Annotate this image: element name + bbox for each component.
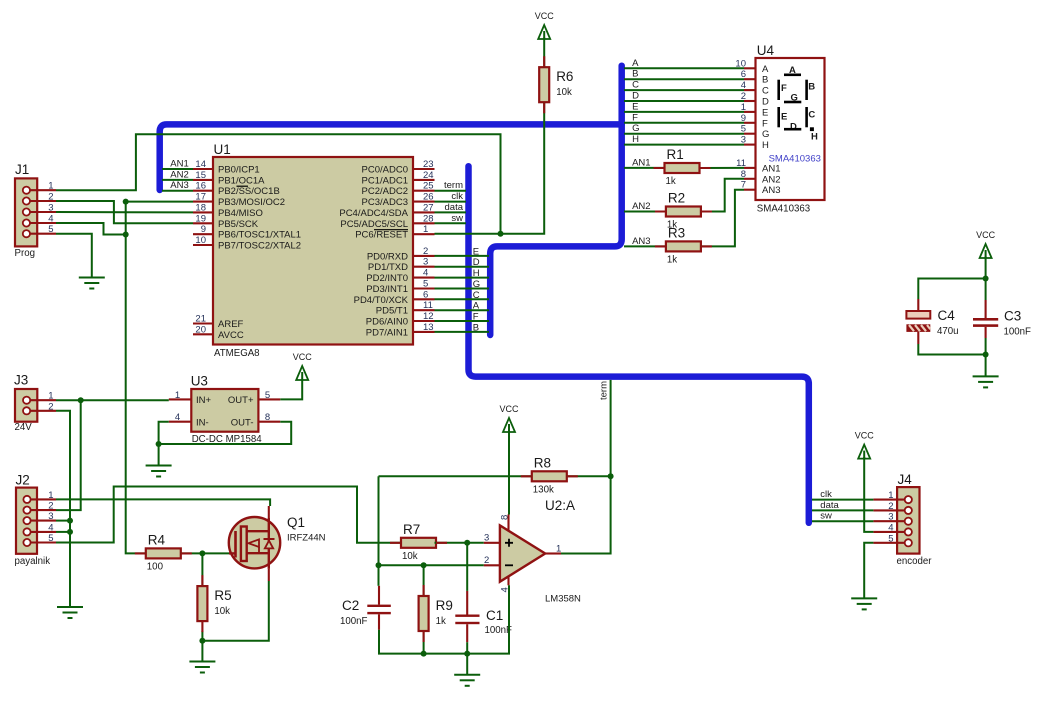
node MOSI lower junction: [123, 232, 129, 238]
R4 lead stubs: [135, 552, 192, 554]
wire C4 to ground node: [918, 344, 985, 355]
Q1 source stub: [268, 569, 270, 581]
svg-text:A: A: [473, 301, 480, 312]
svg-text:VCC: VCC: [293, 352, 313, 362]
U1 pin 14 PB0/ICP1: [193, 159, 260, 176]
wire clk U1 to bus: [435, 201, 467, 203]
svg-text:D: D: [473, 257, 480, 268]
svg-text:5: 5: [423, 279, 428, 290]
svg-text:1: 1: [48, 181, 53, 192]
ground J2/J3: [57, 607, 83, 618]
svg-text:3: 3: [484, 533, 489, 544]
U1 pin 1 PC6/RESET: [355, 224, 434, 241]
wire R8 right: [567, 475, 611, 477]
R3 lead stubs: [655, 245, 712, 247]
svg-text:1: 1: [48, 391, 53, 402]
power VCC above R6: [535, 11, 555, 39]
svg-text:PD5/T1: PD5/T1: [376, 306, 408, 317]
wire U3 OUT+ to VCC: [280, 379, 302, 399]
node C3 C4 ground junction: [983, 352, 989, 358]
svg-text:C: C: [762, 86, 769, 97]
svg-text:100nF: 100nF: [485, 625, 513, 636]
svg-text:sw: sw: [451, 213, 463, 224]
svg-text:Q1: Q1: [287, 515, 305, 530]
svg-text:R2: R2: [668, 191, 685, 206]
svg-text:PD6/AIN0: PD6/AIN0: [366, 317, 408, 328]
svg-text:19: 19: [195, 213, 206, 224]
svg-text:1k: 1k: [436, 616, 446, 627]
wire F bus to U4: [624, 122, 744, 124]
svg-text:J4: J4: [898, 472, 913, 487]
svg-text:5: 5: [48, 224, 53, 235]
wire AN2 bus to R2: [624, 211, 666, 213]
wire J1.5 to ground: [56, 234, 92, 277]
svg-text:R5: R5: [214, 588, 231, 603]
wire 24V to J2.2: [56, 400, 81, 510]
svg-text:AN3: AN3: [632, 236, 650, 247]
J1 pin 3: [23, 203, 56, 216]
wire VCC down to C3: [985, 257, 987, 301]
connector J3 24V body: [14, 373, 37, 434]
svg-text:130k: 130k: [533, 484, 554, 495]
wire R4 to Q1 gate: [181, 552, 229, 554]
svg-text:PB7/TOSC2/XTAL2: PB7/TOSC2/XTAL2: [218, 241, 301, 252]
capacitor C1 100nF: [455, 591, 512, 642]
U1 pin 25 PC2/ADC2: [362, 181, 435, 198]
svg-text:R1: R1: [667, 147, 684, 162]
svg-text:2: 2: [888, 501, 893, 512]
svg-text:4: 4: [423, 268, 428, 279]
wire A bus to U4: [624, 67, 744, 69]
node U3 ground junction: [156, 441, 162, 447]
svg-text:PB2/SS/OC1B: PB2/SS/OC1B: [218, 186, 280, 197]
svg-text:18: 18: [195, 202, 206, 213]
wire C3 to ground: [985, 338, 987, 376]
J1 pin 1: [23, 181, 56, 194]
svg-text:encoder: encoder: [897, 556, 933, 567]
svg-text:9: 9: [201, 224, 206, 235]
svg-text:PD0/RXD: PD0/RXD: [367, 251, 408, 262]
svg-text:VCC: VCC: [499, 404, 519, 414]
wire sw U1 to bus: [435, 222, 467, 224]
ground C3/C4: [973, 376, 999, 387]
svg-text:term: term: [444, 180, 463, 191]
J2 pin 4: [23, 522, 56, 535]
svg-text:clk: clk: [451, 191, 463, 202]
wire J3.2 to ground rail: [56, 411, 70, 607]
svg-text:OUT-: OUT-: [231, 418, 254, 429]
svg-text:IN-: IN-: [196, 418, 209, 429]
U1 pin 12 PD6/AIN0: [366, 311, 435, 328]
svg-text:3: 3: [423, 257, 428, 268]
wire R2 to U4 AN2: [701, 179, 744, 212]
svg-text:5: 5: [265, 390, 270, 401]
J3 pin 1: [23, 391, 56, 404]
svg-text:24V: 24V: [15, 422, 33, 433]
U4 pin 8 AN2: [741, 169, 781, 186]
svg-text:PB5/SCK: PB5/SCK: [218, 219, 259, 230]
svg-text:J2: J2: [16, 473, 30, 488]
svg-text:AN3: AN3: [170, 180, 188, 191]
svg-text:10k: 10k: [556, 87, 572, 98]
resistor R2 1k: [666, 191, 701, 231]
svg-text:F: F: [473, 312, 479, 323]
svg-text:D: D: [762, 97, 769, 108]
wire minus node to C2: [378, 565, 380, 586]
wire A U1 PD to bus: [435, 309, 490, 311]
svg-text:B: B: [808, 82, 815, 93]
wire R8 left row: [379, 475, 532, 477]
wire AN2 bus to U1: [162, 179, 193, 181]
J4 pin 1: [873, 490, 912, 503]
wire MOSI node down to R4: [126, 235, 146, 554]
U1 pin 10 PB7/TOSC2/XTAL2: [193, 235, 301, 252]
svg-text:F: F: [632, 112, 638, 123]
U3 pin 1: [169, 390, 192, 401]
wire gate node to R5: [201, 553, 203, 586]
svg-text:H: H: [762, 140, 769, 151]
svg-text:sw: sw: [820, 511, 832, 522]
svg-text:J1: J1: [15, 162, 29, 177]
U3 pin 5: [258, 390, 280, 401]
U1 pin 28 PC5/ADC5/SCL: [340, 213, 434, 230]
U1 pin 15 PB1/OC1A: [193, 170, 265, 187]
wire data U1 to bus: [435, 211, 467, 213]
svg-text:U1: U1: [214, 142, 231, 157]
J4 pin 3: [873, 512, 912, 525]
svg-text:100: 100: [147, 561, 164, 572]
svg-text:AN2: AN2: [762, 174, 780, 185]
svg-text:PD1/TXD: PD1/TXD: [368, 262, 408, 273]
U1 pin 20 AVCC: [193, 324, 244, 341]
node plus input junction: [464, 540, 470, 546]
wire J1.2 to PB5/SCK: [56, 201, 193, 223]
svg-text:H: H: [632, 134, 639, 145]
svg-text:14: 14: [195, 159, 206, 170]
svg-text:VCC: VCC: [976, 230, 996, 240]
J3 pin 2: [23, 401, 56, 414]
U4 pin 7 AN3: [741, 180, 781, 197]
svg-text:100nF: 100nF: [1004, 327, 1032, 338]
svg-text:PB3/MOSI/OC2: PB3/MOSI/OC2: [218, 197, 285, 208]
wire term bus to op-amp output: [561, 380, 611, 554]
svg-text:PB0/ICP1: PB0/ICP1: [218, 165, 260, 176]
wire R8 left down to minus node: [378, 476, 380, 565]
svg-text:4: 4: [48, 214, 53, 225]
svg-text:IRFZ44N: IRFZ44N: [287, 533, 326, 544]
svg-text:PC0/ADC0: PC0/ADC0: [362, 165, 408, 176]
wire AN1 bus to U1: [162, 168, 193, 170]
node minus C2 junction: [376, 562, 382, 568]
R2 lead stubs: [655, 210, 712, 212]
svg-text:R8: R8: [534, 455, 551, 470]
IC U1 ATMEGA8 body: [213, 142, 413, 359]
wire G U1 PD to bus: [435, 288, 490, 290]
wire C1 to rail: [466, 642, 468, 653]
svg-text:VCC: VCC: [855, 431, 875, 441]
connector J1 Prog body: [15, 162, 38, 259]
connector J4 encoder body: [897, 472, 933, 567]
U4 pin 3 H: [741, 135, 769, 152]
wire AN3 bus to U1: [162, 190, 193, 192]
svg-text:1: 1: [423, 224, 428, 235]
wire VCC to J4 pin4: [864, 457, 873, 532]
U2:A pin 2 stub: [484, 555, 500, 566]
svg-text:LM358N: LM358N: [545, 594, 581, 605]
power VCC at U3 output: [293, 352, 313, 380]
U1 pin 19 PB5/SCK: [193, 213, 259, 230]
wire VCC to R6 top: [543, 38, 545, 68]
wire J1.4 jog to MOSI node: [56, 223, 126, 235]
svg-text:C1: C1: [486, 608, 503, 623]
wire F U1 PD to bus: [435, 320, 490, 322]
svg-text:AREF: AREF: [218, 319, 244, 330]
resistor R5 10k: [197, 586, 231, 621]
svg-text:1k: 1k: [667, 254, 677, 265]
wire sw bus to J4: [812, 520, 873, 522]
wire to U3 ground: [158, 444, 160, 465]
svg-text:6: 6: [423, 289, 428, 300]
svg-text:1k: 1k: [666, 176, 676, 187]
U1 pin 4 PD2/INT0: [366, 268, 434, 285]
U2:A pin 1 output stub: [545, 544, 561, 555]
wire bottom rail to op-amp pin4: [379, 585, 509, 653]
U1 pin 21 AREF: [193, 314, 244, 331]
J2 pin 2: [23, 501, 56, 514]
svg-text:E: E: [473, 246, 479, 257]
svg-text:PC2/ADC2: PC2/ADC2: [362, 186, 408, 197]
svg-text:term: term: [599, 381, 610, 400]
svg-text:5: 5: [888, 533, 893, 544]
node minus R9 junction: [421, 562, 427, 568]
svg-text:B: B: [632, 69, 638, 80]
wire H U1 PD to bus: [435, 277, 490, 279]
wire C U1 PD to bus: [435, 298, 490, 300]
J2 pin 5: [23, 533, 56, 546]
J1 pin 4: [23, 214, 56, 227]
wire J4 pin5 to ground: [864, 543, 873, 598]
svg-text:U3: U3: [191, 374, 208, 389]
svg-text:10k: 10k: [402, 551, 418, 562]
svg-text:AN2: AN2: [170, 169, 188, 180]
node VCC C4 junction: [983, 276, 989, 282]
svg-text:PC4/ADC4/SDA: PC4/ADC4/SDA: [339, 208, 408, 219]
svg-text:G: G: [632, 123, 639, 134]
svg-text:AN1: AN1: [170, 159, 188, 170]
svg-text:G: G: [762, 129, 769, 140]
svg-text:PC5/ADC5/SCL: PC5/ADC5/SCL: [340, 219, 408, 230]
U1 pin 9 PB6/TOSC1/XTAL1: [193, 224, 301, 241]
svg-text:VCC: VCC: [535, 11, 555, 21]
svg-text:B: B: [762, 75, 768, 86]
U4 pin 1 E: [741, 102, 769, 119]
svg-text:OUT+: OUT+: [228, 395, 254, 406]
svg-text:AN1: AN1: [762, 163, 780, 174]
svg-text:28: 28: [423, 213, 434, 224]
svg-text:R4: R4: [148, 532, 166, 547]
svg-text:PC6/RESET: PC6/RESET: [355, 230, 408, 241]
svg-text:clk: clk: [820, 489, 832, 500]
U4 pin 4 C: [741, 80, 769, 97]
svg-text:21: 21: [195, 314, 206, 325]
svg-text:PB6/TOSC1/XTAL1: PB6/TOSC1/XTAL1: [218, 230, 301, 241]
svg-text:17: 17: [195, 192, 206, 203]
svg-text:C: C: [473, 290, 480, 301]
power VCC at C3/C4: [976, 230, 996, 258]
wire data bus to J4: [812, 509, 873, 511]
wire J2.3 to ground net: [56, 520, 70, 522]
R5 lead stubs: [201, 575, 203, 632]
module U3 DC-DC MP1584 body: [191, 374, 263, 446]
resistor R3 1k: [666, 225, 701, 265]
svg-text:PB4/MISO: PB4/MISO: [218, 208, 263, 219]
display U4 SMA410363 body: [756, 43, 825, 215]
U4 pin 11 AN1: [736, 158, 780, 175]
connector J2 payalnik body: [15, 473, 51, 568]
svg-text:8: 8: [500, 515, 511, 520]
R8 lead stubs: [521, 475, 578, 477]
U1 pin 2 PD0/RXD: [367, 246, 435, 263]
node J2.4 junction: [67, 529, 73, 535]
wire R7 to op-amp +: [435, 542, 484, 544]
wire J2.1 to Q1 drain: [56, 499, 270, 506]
wire plus node to C1: [466, 543, 468, 591]
svg-text:B: B: [473, 322, 479, 333]
capacitor C3 100nF: [973, 300, 1031, 338]
svg-text:100nF: 100nF: [340, 616, 368, 627]
U2:A pin 3 stub: [484, 533, 500, 544]
svg-text:A: A: [762, 64, 769, 75]
wire D U1 PD to bus: [435, 266, 490, 268]
wire minus node to R9: [423, 565, 425, 596]
wire VCC to op-amp pin8: [508, 431, 510, 515]
U1 pin 24 PC1/ADC1: [362, 170, 435, 187]
ground op-amp rail: [454, 675, 480, 686]
R1 lead stubs: [654, 167, 711, 169]
svg-text:PC3/ADC3: PC3/ADC3: [362, 197, 408, 208]
U1 pin 18 PB4/MISO: [193, 202, 263, 219]
wire AN3 bus to R3: [624, 245, 666, 247]
svg-text:26: 26: [423, 192, 434, 203]
svg-text:10: 10: [195, 235, 206, 246]
svg-text:25: 25: [423, 181, 434, 192]
svg-text:H: H: [811, 132, 818, 143]
power VCC at op-amp: [499, 404, 519, 432]
svg-text:AVCC: AVCC: [218, 330, 244, 341]
svg-text:3: 3: [888, 512, 893, 523]
U1 pin 11 PD5/T1: [376, 300, 435, 317]
U1 pin 3 PD1/TXD: [368, 257, 435, 274]
bus: PC-port to encoder bus: [469, 166, 809, 523]
svg-text:data: data: [445, 202, 464, 213]
wire clk bus to J4: [812, 499, 873, 501]
svg-text:24: 24: [423, 170, 434, 181]
svg-text:R9: R9: [436, 598, 453, 613]
U1 pin 23 PC0/ADC0: [362, 159, 435, 176]
svg-text:R7: R7: [403, 522, 420, 537]
transistor Q1 IRFZ44N: [229, 515, 326, 569]
svg-text:U4: U4: [757, 43, 775, 58]
svg-text:1: 1: [175, 390, 180, 401]
svg-text:PB1/OC1A: PB1/OC1A: [218, 175, 265, 186]
bus: tall right display bus: [490, 66, 622, 335]
wire J2.4 to ground net: [56, 531, 70, 533]
svg-text:C3: C3: [1004, 309, 1021, 324]
Q1 drain stub: [268, 506, 270, 518]
wire E bus to U4: [624, 111, 744, 113]
svg-text:C2: C2: [342, 598, 359, 613]
wire J3.1 to U3 IN+: [56, 399, 169, 401]
wire minus row to op-amp -: [379, 564, 484, 566]
svg-text:C: C: [808, 110, 815, 121]
wire J2.5 to R7: [56, 487, 401, 543]
U4 pin 10 A: [735, 58, 769, 75]
svg-text:3: 3: [48, 511, 53, 522]
J2 pin 1: [23, 490, 56, 503]
svg-text:5: 5: [48, 533, 53, 544]
wire J1.3 to PB4/MISO: [56, 211, 193, 213]
svg-text:R6: R6: [556, 69, 573, 84]
U3 pin 8: [258, 412, 280, 423]
capacitor C2 100nF: [340, 586, 391, 630]
svg-text:1: 1: [888, 490, 893, 501]
U3 pin 4: [169, 412, 192, 423]
U1 pin 27 PC4/ADC4/SDA: [339, 202, 434, 219]
U1 pin 13 PD7/AIN1: [366, 322, 435, 339]
wire R9 to rail: [423, 631, 425, 654]
svg-text:G: G: [473, 279, 480, 290]
U4 pin 9 F: [741, 113, 768, 130]
svg-text:3: 3: [48, 203, 53, 214]
svg-text:F: F: [762, 118, 768, 129]
svg-text:C: C: [632, 80, 639, 91]
svg-text:1: 1: [48, 490, 53, 501]
J1 pin 2: [23, 192, 56, 205]
J4 pin 2: [873, 501, 912, 514]
svg-text:PD4/T0/XCK: PD4/T0/XCK: [354, 295, 409, 306]
wire U3 OUT- return: [159, 422, 292, 444]
U4 pin 5 G: [741, 124, 770, 141]
svg-text:data: data: [820, 500, 839, 511]
wire RESET row to R6: [435, 102, 545, 234]
svg-text:R3: R3: [668, 225, 685, 240]
wire VCC node to C4: [918, 279, 985, 300]
node term R8 junction: [608, 473, 614, 479]
svg-text:8: 8: [265, 412, 270, 423]
svg-text:payalnik: payalnik: [15, 556, 51, 567]
resistor R9 1k: [419, 596, 453, 631]
svg-text:15: 15: [195, 170, 206, 181]
svg-text:16: 16: [195, 181, 206, 192]
U4 pin 2 D: [741, 91, 769, 108]
J4 pin 4: [873, 522, 912, 535]
wire B U1 PD to bus: [435, 331, 490, 333]
svg-text:10k: 10k: [214, 606, 230, 617]
svg-text:23: 23: [423, 159, 434, 170]
node J2.3 junction: [67, 518, 73, 524]
node J3.1 junction: [78, 397, 84, 403]
U1 pin 16 PB2/SS/OC1B: [193, 181, 280, 198]
svg-text:470u: 470u: [937, 326, 959, 337]
svg-text:J3: J3: [14, 373, 28, 388]
resistor R1 1k: [665, 147, 700, 187]
node rail C1 junction: [464, 651, 470, 657]
wire G bus to U4: [624, 133, 744, 135]
svg-text:AN3: AN3: [762, 185, 780, 196]
resistor R8 130k: [532, 455, 567, 495]
wire C bus to U4: [624, 89, 744, 91]
svg-text:2: 2: [484, 555, 489, 566]
